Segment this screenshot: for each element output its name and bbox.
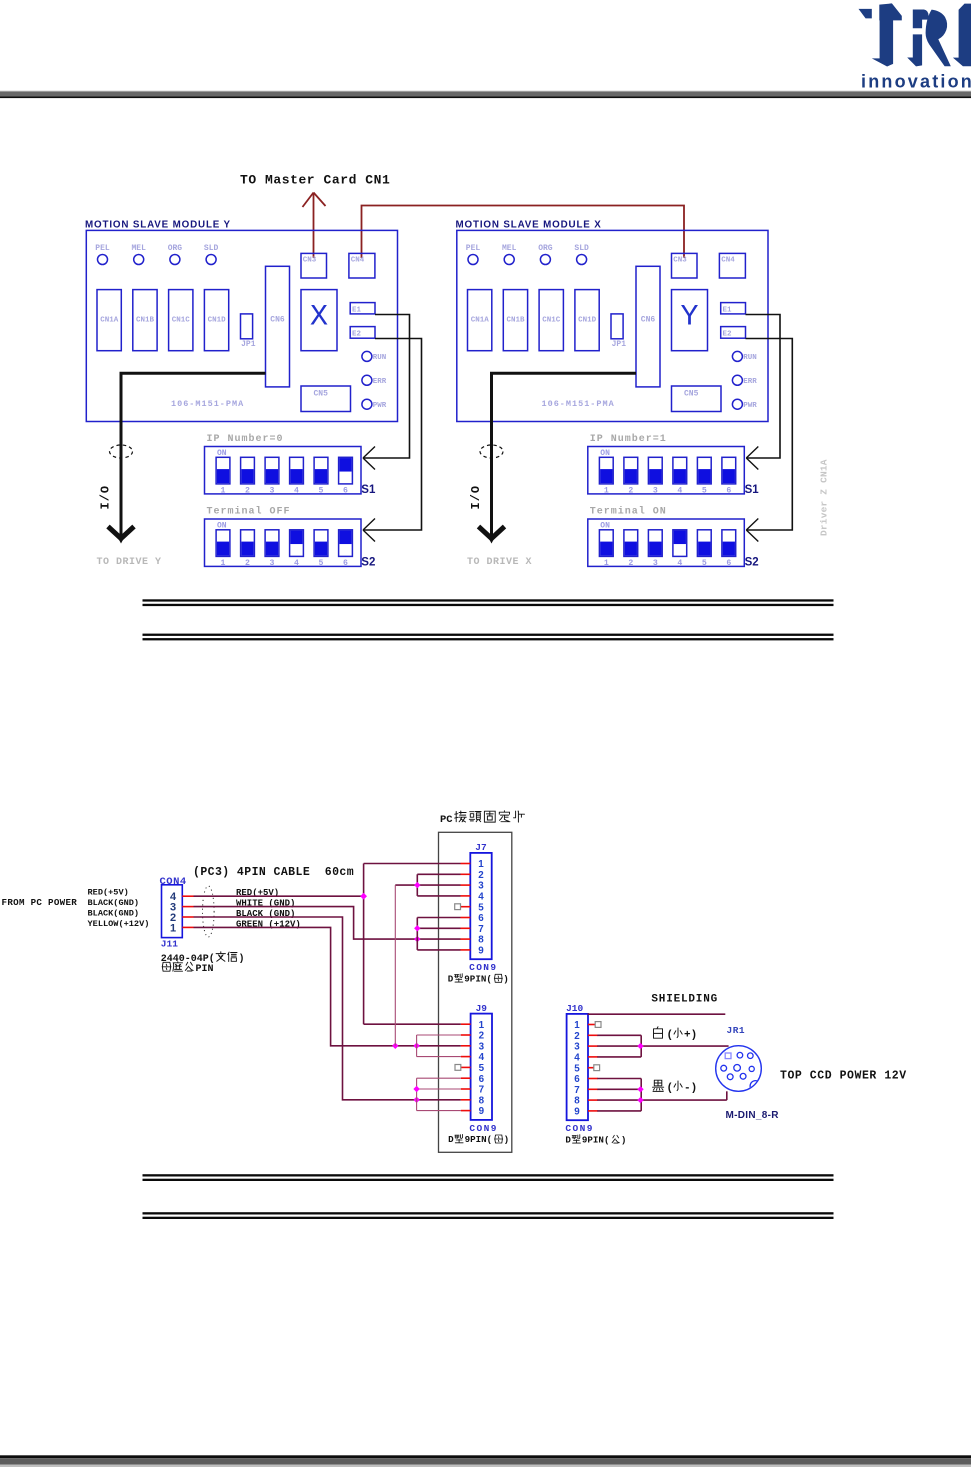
LED ERR (module X) xyxy=(732,375,757,386)
pin stub 6 J9 xyxy=(461,1077,471,1079)
connector E1 (module X) xyxy=(721,303,746,315)
svg-text:TO DRIVE X: TO DRIVE X xyxy=(467,557,532,568)
svg-text:IP Number=0: IP Number=0 xyxy=(207,433,284,445)
svg-text:1: 1 xyxy=(479,1020,485,1031)
svg-text:2: 2 xyxy=(628,559,633,568)
svg-text:CN1A: CN1A xyxy=(100,317,119,325)
svg-text:E1: E1 xyxy=(723,306,733,314)
svg-text:JR1: JR1 xyxy=(727,1025,746,1036)
svg-text:PEL: PEL xyxy=(95,244,110,253)
svg-text:I/O: I/O xyxy=(99,485,113,510)
wire WHITE GND CON4.3 to J7.8 xyxy=(194,907,461,940)
svg-text:CN3: CN3 xyxy=(673,257,687,265)
TRI innovation logo xyxy=(859,3,971,91)
label 2440-04P (jiao-xin) xyxy=(161,952,245,965)
wire J10 pins 6-7-8-9 to M-DIN (black lead) xyxy=(597,1079,727,1111)
LED ERR (module Y) xyxy=(362,375,387,386)
connector CN4 (module Y) xyxy=(349,253,375,278)
svg-text:1: 1 xyxy=(221,559,226,568)
LED MEL (module X) xyxy=(502,244,517,265)
label PC bracket (PC jie-tou fixing piece) xyxy=(440,811,525,826)
pin stub 7 J10 xyxy=(588,1088,598,1090)
junction J7 pin7 bracket xyxy=(414,925,420,931)
svg-text:5: 5 xyxy=(574,1063,580,1074)
wire J10 pins 2-3-4 to M-DIN (white lead) xyxy=(597,1035,728,1057)
svg-text:9: 9 xyxy=(574,1107,580,1118)
svg-text:PWR: PWR xyxy=(373,402,387,410)
svg-text:3: 3 xyxy=(653,559,658,568)
svg-text:1: 1 xyxy=(170,922,176,934)
connector JR1 M-DIN 8R shell xyxy=(716,1046,762,1092)
DIP switch S1-Y (S1) xyxy=(205,447,362,496)
svg-text:PIN: PIN xyxy=(196,964,214,975)
connector CN1D (module Y) xyxy=(204,290,228,351)
svg-text:9PIN(: 9PIN( xyxy=(465,1134,493,1145)
connector CN1B (module Y) xyxy=(133,290,157,351)
svg-text:J7: J7 xyxy=(475,842,487,853)
connector CN3 (module Y) xyxy=(301,253,327,278)
connector CN1D (module X) xyxy=(575,290,599,351)
separator rule 4 xyxy=(143,1212,834,1219)
DIP switch S2-Y (S2) xyxy=(205,519,362,568)
svg-text:): ) xyxy=(504,1134,510,1145)
svg-text:7: 7 xyxy=(478,924,484,935)
svg-text:J9: J9 xyxy=(476,1003,488,1014)
junction RED net xyxy=(360,893,367,900)
svg-text:1: 1 xyxy=(604,486,609,495)
svg-text:RUN: RUN xyxy=(373,354,387,362)
header rule bar xyxy=(0,91,971,98)
svg-text:6: 6 xyxy=(343,486,348,495)
LED PWR (module Y) xyxy=(362,399,387,410)
pin stub 4 J10 xyxy=(588,1056,598,1058)
pin stub CON4 xyxy=(182,926,193,928)
svg-text:MOTION SLAVE MODULE X: MOTION SLAVE MODULE X xyxy=(456,219,602,230)
svg-text:BLACK(GND): BLACK(GND) xyxy=(88,898,140,908)
svg-text:Terminal OFF: Terminal OFF xyxy=(207,505,291,517)
svg-text:JP1: JP1 xyxy=(612,340,627,349)
connector CN3 (module X) xyxy=(672,253,698,278)
svg-text:Terminal ON: Terminal ON xyxy=(590,505,667,517)
junction J9 pin7 bracket xyxy=(413,1086,419,1092)
svg-text:(: ( xyxy=(667,1030,674,1042)
svg-text:-): -) xyxy=(684,1083,697,1095)
svg-text:CN1C: CN1C xyxy=(172,317,191,325)
svg-text:CN5: CN5 xyxy=(314,390,329,399)
pin stub 6 J10 xyxy=(588,1078,598,1080)
LED RUN (module X) xyxy=(732,351,756,362)
svg-text:6: 6 xyxy=(479,1074,485,1085)
svg-text:E2: E2 xyxy=(723,331,733,339)
pin stub 3 J9 xyxy=(461,1045,471,1047)
LED PWR (module X) xyxy=(732,399,757,410)
svg-text:CN6: CN6 xyxy=(270,315,285,324)
no-connect pin 5 J9 xyxy=(455,1065,461,1071)
separator rule 1 xyxy=(143,599,834,606)
LED PEL (module Y) xyxy=(95,244,110,265)
svg-text:5: 5 xyxy=(479,1063,485,1074)
svg-text:9PIN(: 9PIN( xyxy=(464,974,492,985)
svg-text:5: 5 xyxy=(319,559,324,568)
svg-text:S2: S2 xyxy=(361,557,375,569)
svg-text:innovation: innovation xyxy=(861,72,971,92)
svg-text:6: 6 xyxy=(726,559,731,568)
svg-text:4: 4 xyxy=(479,1052,485,1063)
no-connect pin 1 J10 xyxy=(595,1022,601,1028)
connector CN1B (module X) xyxy=(503,290,527,351)
svg-text:JP1: JP1 xyxy=(241,340,256,349)
svg-text:7: 7 xyxy=(479,1085,485,1096)
cable symbol on I/O bus X xyxy=(480,445,503,458)
svg-text:+): +) xyxy=(684,1030,697,1042)
svg-text:3: 3 xyxy=(479,1041,485,1052)
connector CN4 (module X) xyxy=(719,253,745,278)
svg-text:3: 3 xyxy=(270,486,275,495)
svg-text:(PC3) 4PIN CABLE 60cm: (PC3) 4PIN CABLE 60cm xyxy=(193,866,354,879)
connector CN5 (module X) xyxy=(672,386,722,412)
pin stub 8 J7 xyxy=(461,938,471,940)
IC Y-axis ident square (module X) xyxy=(672,290,708,351)
junction BLACK net at J9 bracket xyxy=(413,1097,419,1103)
svg-text:X: X xyxy=(310,301,328,335)
label D-type 9PIN (J9) xyxy=(448,1134,509,1145)
pin stub 1 J10 xyxy=(588,1024,598,1026)
svg-text:D: D xyxy=(565,1135,571,1146)
junction GREEN to J9 bracket xyxy=(413,1043,419,1049)
connector E2 (module Y) xyxy=(350,327,375,339)
pin stub 9 J10 xyxy=(588,1110,598,1112)
pin stub 5 J9 xyxy=(461,1066,471,1068)
pin stub 6 J7 xyxy=(461,917,471,919)
no-connect pin 5 J10 xyxy=(594,1065,600,1071)
module MOTION SLAVE MODULE X board outline xyxy=(457,230,768,421)
pin stub 2 J9 xyxy=(461,1034,471,1036)
pin stub 5 J7 xyxy=(461,906,471,908)
junction white lead J10.3 xyxy=(637,1043,643,1049)
separator rule 3 xyxy=(143,1174,834,1181)
label white (small +) xyxy=(654,1027,698,1042)
wire BLACK GND CON4.2 to J9.8 xyxy=(194,917,461,1100)
connector CON4 body xyxy=(162,885,183,938)
svg-text:): ) xyxy=(503,974,509,985)
pin stub 3 J7 xyxy=(461,884,471,886)
connector E2 (module X) xyxy=(721,327,746,339)
connector CN1C (module Y) xyxy=(169,290,193,351)
svg-text:2: 2 xyxy=(479,1031,485,1042)
no-connect pin 5 J7 xyxy=(455,904,461,910)
junction J7 pin3 bracket xyxy=(414,882,420,888)
connector CN1A (module X) xyxy=(468,290,492,351)
pin stub 5 J10 xyxy=(588,1067,598,1069)
svg-text:J11: J11 xyxy=(161,939,178,950)
pin stub 7 J7 xyxy=(461,927,471,929)
module MOTION SLAVE MODULE Y board outline xyxy=(86,230,397,421)
svg-text:1: 1 xyxy=(478,859,484,870)
junction black lead J10.8 xyxy=(637,1097,643,1103)
svg-text:106-M151-PMA: 106-M151-PMA xyxy=(542,399,615,409)
wire I/O bus from CN6 to drive X xyxy=(492,373,637,536)
pin stub CON4 xyxy=(182,895,193,897)
svg-text:TO Master Card CN1: TO Master Card CN1 xyxy=(240,173,390,188)
pin stub 2 J7 xyxy=(461,873,471,875)
wire J7 pins 2-3-4 bracket xyxy=(395,874,460,896)
svg-text:6: 6 xyxy=(574,1074,580,1085)
wire I/O bus from CN6 to drive Y xyxy=(121,373,266,536)
svg-text:SHIELDING: SHIELDING xyxy=(651,994,718,1006)
connector CN1A (module Y) xyxy=(97,290,121,351)
wire red CN4-Y to CN3-X xyxy=(362,206,685,259)
svg-text:5: 5 xyxy=(478,902,484,913)
svg-text:ERR: ERR xyxy=(743,378,757,386)
wire J9 pins 6-7-9 bracket xyxy=(417,1078,461,1110)
connector CN1C (module X) xyxy=(539,290,563,351)
svg-text:SLD: SLD xyxy=(574,244,589,253)
svg-text:I/O: I/O xyxy=(469,485,483,510)
wire J9 pins 2-3-4 bracket xyxy=(417,1035,461,1057)
svg-text:PEL: PEL xyxy=(466,244,481,253)
LED RUN (module Y) xyxy=(362,351,386,362)
connector CN6 (module X) xyxy=(636,266,660,387)
LED SLD (module Y) xyxy=(204,244,219,265)
svg-text:RUN: RUN xyxy=(743,354,757,362)
svg-text:D: D xyxy=(448,974,454,985)
wire J7 group down to J9.3 row xyxy=(394,885,396,1046)
svg-text:IP Number=1: IP Number=1 xyxy=(590,433,667,445)
svg-text:4: 4 xyxy=(478,892,484,903)
label D-type 9PIN (J7) xyxy=(448,974,509,985)
cable bundle symbol (4pin cable) xyxy=(203,886,215,937)
connector E1 (module Y) xyxy=(350,303,375,315)
LED ORG (module Y) xyxy=(168,244,183,265)
svg-text:CN5: CN5 xyxy=(684,390,699,399)
svg-text:CN1B: CN1B xyxy=(136,317,155,325)
svg-text:PWR: PWR xyxy=(743,402,757,410)
svg-text:8: 8 xyxy=(574,1096,580,1107)
svg-text:ORG: ORG xyxy=(538,244,553,253)
svg-text:9: 9 xyxy=(479,1106,485,1117)
pin stub 4 J7 xyxy=(461,895,471,897)
svg-text:ERR: ERR xyxy=(373,378,387,386)
svg-text:3: 3 xyxy=(478,881,484,892)
svg-text:4: 4 xyxy=(294,486,299,495)
svg-text:S2: S2 xyxy=(745,557,759,569)
svg-text:CN1D: CN1D xyxy=(208,317,227,325)
svg-text:Y: Y xyxy=(680,301,698,335)
svg-text:M-DIN_8-R: M-DIN_8-R xyxy=(726,1110,780,1121)
arrowhead to drive Y xyxy=(108,527,134,539)
pin stub 8 J10 xyxy=(588,1099,598,1101)
wire RED +5V CON4.4 to J7.1 and J9.1 xyxy=(194,864,461,1025)
wire E1-X to DIP S1-X xyxy=(746,315,781,470)
svg-text:CN4: CN4 xyxy=(721,257,735,265)
svg-text:9PIN(: 9PIN( xyxy=(582,1135,610,1146)
svg-text:E1: E1 xyxy=(352,306,362,314)
svg-text:6: 6 xyxy=(478,913,484,924)
pin stub 1 J7 xyxy=(461,863,471,865)
connector CN6 (module Y) xyxy=(266,266,290,387)
svg-text:YELLOW(+12V): YELLOW(+12V) xyxy=(88,919,150,929)
wire E2-X to DIP S2-X xyxy=(746,339,793,542)
svg-text:(: ( xyxy=(667,1083,674,1095)
label D-type 9PIN (J10) xyxy=(565,1135,626,1146)
svg-text:): ) xyxy=(621,1135,627,1146)
svg-text:PC: PC xyxy=(440,814,453,826)
arrowhead to drive X xyxy=(479,527,505,539)
bracket plate rectangle xyxy=(439,832,512,1152)
svg-text:2: 2 xyxy=(628,486,633,495)
svg-text:4: 4 xyxy=(677,486,682,495)
svg-text:MOTION SLAVE MODULE Y: MOTION SLAVE MODULE Y xyxy=(85,219,231,230)
svg-text:TOP CCD POWER 12V: TOP CCD POWER 12V xyxy=(780,1070,907,1083)
label mu-zuo-gong PIN xyxy=(162,962,213,975)
svg-text:TO DRIVE Y: TO DRIVE Y xyxy=(97,557,162,568)
pin stub 8 J9 xyxy=(461,1099,471,1101)
pin stub 7 J9 xyxy=(461,1088,471,1090)
M-DIN pins xyxy=(721,1052,755,1079)
pin stub CON4 xyxy=(182,916,193,918)
junction WHITE net at J7 bracket xyxy=(414,936,420,942)
wire red arrow from CN3-Y to master card xyxy=(303,193,326,259)
svg-text:106-M151-PMA: 106-M151-PMA xyxy=(171,399,244,409)
junction black lead J10.7 xyxy=(637,1086,643,1092)
pin stub 1 J9 xyxy=(461,1023,471,1025)
svg-text:1: 1 xyxy=(604,559,609,568)
svg-text:D: D xyxy=(448,1134,454,1145)
separator rule 2 xyxy=(143,634,834,641)
svg-text:RED(+5V): RED(+5V) xyxy=(88,887,129,897)
svg-text:CON9: CON9 xyxy=(469,962,497,973)
svg-text:2: 2 xyxy=(245,486,250,495)
svg-text:7: 7 xyxy=(574,1085,580,1096)
svg-text:3: 3 xyxy=(270,559,275,568)
LED SLD (module X) xyxy=(574,244,589,265)
svg-text:5: 5 xyxy=(319,486,324,495)
svg-text:3: 3 xyxy=(653,486,658,495)
svg-text:SLD: SLD xyxy=(204,244,219,253)
wire SHIELDING from J10 shell xyxy=(588,1013,726,1015)
svg-text:CN1A: CN1A xyxy=(471,317,490,325)
svg-text:CON9: CON9 xyxy=(469,1123,497,1134)
DIP switch S2-X (S2) xyxy=(588,519,745,568)
svg-text:CN1C: CN1C xyxy=(542,317,561,325)
svg-text:4: 4 xyxy=(677,559,682,568)
wire E2-Y to DIP S2-Y xyxy=(363,339,422,542)
svg-text:): ) xyxy=(239,953,245,965)
wire GREEN +12V CON4.1 to J9.3 xyxy=(194,927,461,1045)
label black (small -) xyxy=(653,1080,698,1094)
svg-text:5: 5 xyxy=(702,486,707,495)
svg-text:3: 3 xyxy=(574,1042,580,1053)
svg-text:9: 9 xyxy=(478,946,484,957)
svg-text:8: 8 xyxy=(478,935,484,946)
svg-text:1: 1 xyxy=(221,486,226,495)
LED MEL (module Y) xyxy=(131,244,146,265)
connector J7 body xyxy=(470,853,491,959)
svg-text:2: 2 xyxy=(245,559,250,568)
svg-text:5: 5 xyxy=(702,559,707,568)
svg-text:Driver Z CN1A: Driver Z CN1A xyxy=(819,459,830,536)
svg-text:CON9: CON9 xyxy=(565,1123,593,1134)
LED ORG (module X) xyxy=(538,244,553,265)
junction GREEN to J7 group xyxy=(392,1043,398,1049)
jumper JP1 (module X) xyxy=(611,314,626,349)
pin stub 9 J9 xyxy=(461,1110,471,1112)
svg-text:8: 8 xyxy=(479,1095,485,1106)
svg-text:4: 4 xyxy=(294,559,299,568)
pin stub 2 J10 xyxy=(588,1034,598,1036)
pin stub CON4 xyxy=(182,906,193,908)
svg-text:E2: E2 xyxy=(352,331,362,339)
wire E1-Y to DIP S1-Y xyxy=(363,315,410,470)
svg-text:J10: J10 xyxy=(566,1003,583,1014)
connector J9 body xyxy=(471,1014,492,1120)
svg-text:6: 6 xyxy=(726,486,731,495)
svg-text:FROM PC POWER: FROM PC POWER xyxy=(2,897,78,908)
svg-text:MEL: MEL xyxy=(502,244,517,253)
pin stub 4 J9 xyxy=(461,1056,471,1058)
svg-text:CN4: CN4 xyxy=(351,257,365,265)
svg-text:ORG: ORG xyxy=(168,244,183,253)
svg-text:CN6: CN6 xyxy=(641,315,656,324)
svg-text:CN1B: CN1B xyxy=(506,317,525,325)
cable symbol on I/O bus Y xyxy=(110,445,133,458)
pin stub 9 J7 xyxy=(461,949,471,951)
svg-text:CN1D: CN1D xyxy=(578,317,597,325)
connector J10 body xyxy=(567,1014,588,1120)
IC X-axis ident square (module Y) xyxy=(301,290,337,351)
svg-text:1: 1 xyxy=(574,1020,580,1031)
jumper JP1 (module Y) xyxy=(241,314,256,349)
DIP switch S1-X (S1) xyxy=(588,447,745,496)
svg-text:BLACK(GND): BLACK(GND) xyxy=(88,909,140,919)
svg-text:2: 2 xyxy=(478,870,484,881)
footer rule bar xyxy=(0,1455,971,1467)
connector CN5 (module Y) xyxy=(301,386,351,412)
svg-text:CN3: CN3 xyxy=(303,257,317,265)
pin stub 3 J10 xyxy=(588,1045,598,1047)
wire J7 pins 6-7-9 bracket xyxy=(417,918,460,950)
svg-text:6: 6 xyxy=(343,559,348,568)
svg-text:S1: S1 xyxy=(745,484,760,496)
svg-text:MEL: MEL xyxy=(131,244,146,253)
svg-text:4: 4 xyxy=(574,1053,580,1064)
svg-text:2: 2 xyxy=(574,1031,580,1042)
LED PEL (module X) xyxy=(466,244,481,265)
svg-text:S1: S1 xyxy=(361,484,376,496)
